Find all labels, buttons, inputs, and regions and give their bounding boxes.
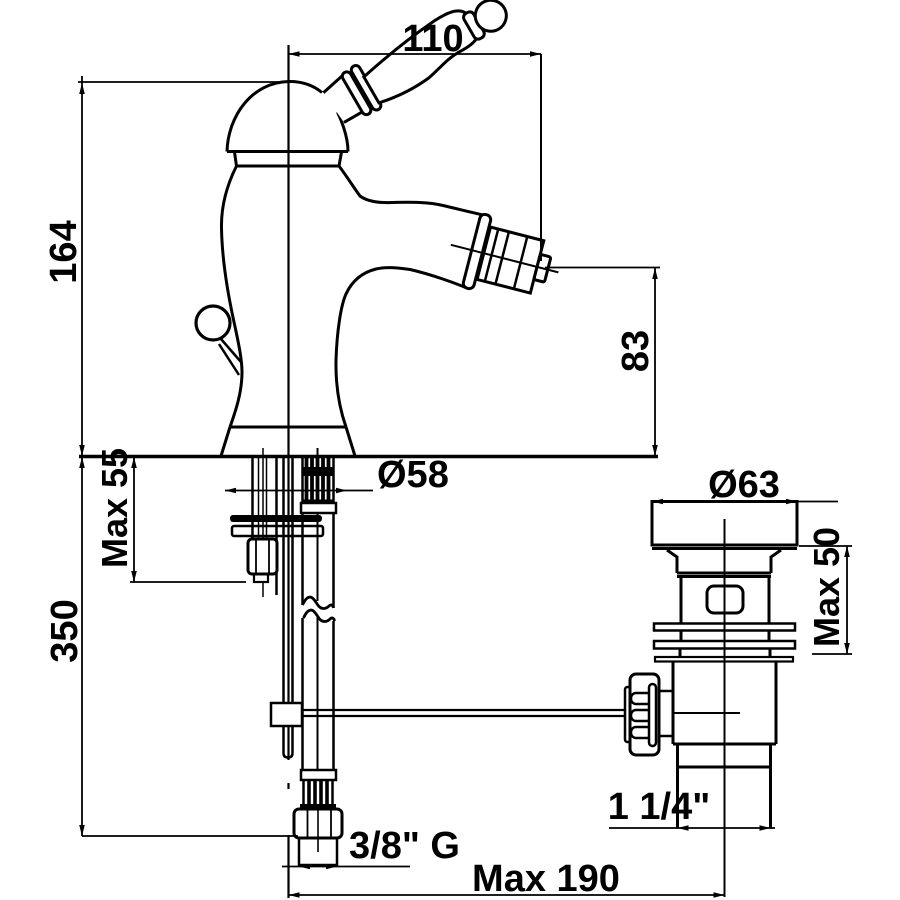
horizontal linkage rod to drain [302, 709, 626, 711]
spout underside / body right [336, 268, 468, 427]
svg-text:3/8" G: 3/8" G [349, 825, 460, 867]
faucet base [221, 427, 355, 456]
aerator spout end [441, 208, 567, 309]
pipe break symbol [303, 597, 334, 608]
dimension Max 190 [289, 892, 725, 898]
faucet centerline [287, 45, 289, 898]
drain flange [652, 502, 797, 546]
faucet dome cap [227, 81, 348, 151]
mounting horseshoe plate [232, 526, 323, 536]
dimension diameter 58 [225, 488, 373, 494]
thread hatch top [307, 458, 329, 503]
drain rod axis tick [674, 712, 740, 714]
faucet body outline left [221, 166, 242, 427]
dimension 3/8 G [282, 864, 410, 870]
grip end rings [462, 10, 486, 41]
handle collar ring 1 [341, 70, 373, 116]
pop-up rod clamp [271, 703, 302, 726]
spout flange ring [462, 213, 492, 289]
faucet body outline right / spout top [339, 166, 486, 216]
nut top band [300, 804, 336, 809]
supply connection nut [294, 809, 342, 838]
drain upper body [680, 577, 683, 623]
porcelain grip [357, 4, 487, 107]
dimension 110 [289, 51, 542, 261]
stud tail below nut [254, 574, 268, 582]
spout axis line [451, 245, 559, 273]
lower thread [302, 780, 305, 804]
drain slip plate 1 [654, 624, 795, 631]
castellated adjuster wheel [625, 674, 659, 755]
svg-text:Max 190: Max 190 [472, 858, 620, 900]
handle shank [320, 74, 365, 124]
ball finial [470, 0, 512, 37]
mounting washer plate (filled) [230, 515, 322, 522]
faucet cap collar [235, 152, 342, 166]
wheel connector [659, 690, 673, 693]
svg-text:1 1/4": 1 1/4" [608, 786, 711, 828]
pipe below break [301, 618, 304, 770]
pipe down to break [301, 513, 304, 605]
svg-text:Max 50: Max 50 [806, 527, 847, 647]
mounting stud (left) [253, 448, 277, 595]
dimension Max 50 [799, 546, 852, 654]
supply pipe tail 3/8G [299, 838, 337, 865]
lower collar [301, 770, 336, 780]
pop-up drain rod [284, 457, 293, 758]
svg-text:110: 110 [402, 18, 463, 60]
mounting nut [248, 539, 277, 574]
drain overflow hole [707, 586, 743, 613]
svg-text:Ø58: Ø58 [377, 454, 449, 496]
supply pipe with threaded shank [301, 448, 336, 804]
drain neck taper [667, 550, 781, 577]
handle collar ring 2 [350, 64, 383, 112]
svg-text:Ø63: Ø63 [708, 464, 780, 506]
aerator end cap [534, 254, 551, 282]
pop-up lever rod [221, 339, 241, 362]
drain thin plate 3 [655, 657, 793, 662]
aerator body [477, 227, 544, 293]
countertop line [79, 455, 658, 459]
drain centerline [724, 519, 726, 897]
dimension Max 55 [130, 457, 246, 582]
handle assembly (lever + porcelain grip + ball finial) [319, 0, 516, 129]
svg-text:164: 164 [43, 220, 85, 283]
dimension 350 [79, 457, 298, 836]
drain slip plate 2 [654, 641, 795, 649]
drain tailpiece [678, 744, 771, 828]
dimension diameter 63 [652, 499, 838, 505]
shank collar [301, 503, 336, 513]
dimension 83 [545, 268, 660, 457]
svg-text:350: 350 [44, 599, 86, 662]
dimension 1 1/4 inch [609, 825, 775, 831]
drain lower body [673, 662, 776, 744]
pop-up lever knob [196, 306, 230, 340]
dimension 164 [78, 76, 287, 456]
svg-text:Max 55: Max 55 [94, 448, 135, 568]
svg-text:83: 83 [615, 330, 657, 372]
